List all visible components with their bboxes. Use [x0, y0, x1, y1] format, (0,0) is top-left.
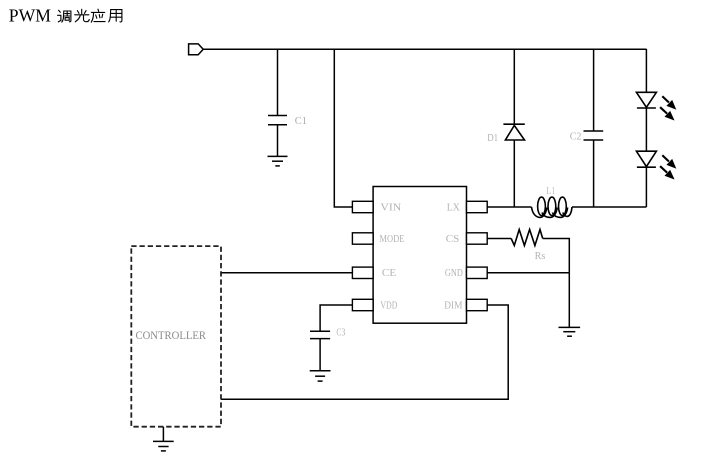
- title char 光: [75, 9, 90, 21]
- wire VDD to C3: [320, 305, 352, 331]
- IC U1 body: [373, 187, 466, 324]
- capacitor C2: [584, 131, 604, 140]
- svg-text:C2: C2: [570, 131, 582, 142]
- pin VIN: [352, 201, 373, 212]
- svg-text:D1: D1: [487, 133, 498, 144]
- svg-text:C1: C1: [295, 116, 307, 127]
- wire LED column top: [645, 49, 647, 92]
- title char 应: [91, 9, 105, 22]
- label DIM: [444, 300, 463, 311]
- wire LX to node: [487, 206, 531, 208]
- diode D1: [503, 124, 524, 140]
- wire LED column bottom: [645, 167, 647, 207]
- controller box: [131, 246, 221, 427]
- label MODE: [380, 234, 405, 245]
- svg-text:MODE: MODE: [380, 234, 405, 245]
- wire top rail: [203, 48, 646, 50]
- label Rs: [535, 251, 546, 262]
- svg-text:VIN: VIN: [380, 202, 401, 213]
- label C3: [336, 327, 345, 338]
- title char 调: [58, 10, 71, 22]
- svg-text:PWM: PWM: [9, 6, 52, 26]
- label CE: [382, 268, 396, 279]
- wire VIN branch: [334, 49, 352, 207]
- wire C2 lower: [593, 140, 595, 207]
- title char 用: [109, 10, 122, 22]
- wire node to ground: [568, 273, 570, 328]
- pin GND: [467, 267, 488, 278]
- wire CS to resistor: [487, 238, 511, 240]
- svg-text:DIM: DIM: [444, 300, 463, 311]
- pin CS: [467, 233, 488, 244]
- label LX: [447, 202, 460, 213]
- LED D2 arrows: [660, 96, 675, 119]
- wire C3 lower: [319, 339, 321, 371]
- pin CE: [352, 267, 373, 278]
- wire controller to ground: [162, 427, 164, 442]
- wire D1 lower: [513, 140, 515, 207]
- capacitor C3: [310, 331, 330, 338]
- input connector J1: [189, 44, 204, 55]
- wire C2 branch upper: [593, 49, 595, 131]
- svg-text:VDD: VDD: [380, 300, 397, 311]
- ground below C1: [268, 156, 288, 166]
- wire L1 to LED column: [572, 206, 646, 208]
- label C2: [570, 131, 582, 142]
- ground below Rs: [559, 327, 581, 336]
- pin LX: [467, 201, 488, 212]
- label VIN: [380, 202, 401, 213]
- svg-text:C3: C3: [336, 327, 345, 338]
- LED D3: [636, 151, 656, 167]
- svg-text:LX: LX: [447, 202, 460, 213]
- wire between LEDs: [645, 108, 647, 151]
- ground below C3: [310, 371, 331, 381]
- wire resistor to corner: [543, 239, 570, 273]
- svg-text:Rs: Rs: [535, 251, 546, 262]
- wire DIM loop: [221, 305, 508, 399]
- label L1: [546, 186, 555, 197]
- svg-text:CONTROLLER: CONTROLLER: [136, 330, 207, 342]
- svg-text:L1: L1: [546, 186, 555, 197]
- svg-text:GND: GND: [445, 268, 463, 279]
- pin VDD: [352, 299, 373, 310]
- capacitor C1: [268, 116, 287, 125]
- svg-text:CE: CE: [382, 268, 396, 279]
- svg-text:CS: CS: [446, 234, 460, 245]
- resistor Rs: [511, 230, 543, 246]
- label C1: [295, 116, 307, 127]
- wire CE to controller: [221, 272, 352, 274]
- label VDD: [380, 300, 397, 311]
- LED D3 arrows: [660, 155, 675, 178]
- inductor L1: [532, 197, 573, 217]
- pin MODE: [352, 233, 373, 244]
- title text PWM: [9, 6, 52, 26]
- LED D2: [636, 92, 656, 108]
- wire C1 lower: [277, 125, 279, 157]
- wire D1 branch upper: [513, 49, 515, 124]
- label CONTROLLER: [136, 330, 207, 342]
- label D1: [487, 133, 498, 144]
- wire C1 branch upper: [277, 49, 279, 116]
- label GND: [445, 268, 463, 279]
- pin DIM: [467, 299, 488, 310]
- ground below controller: [153, 441, 174, 451]
- label CS: [446, 234, 460, 245]
- wire GND pin to node: [487, 272, 569, 274]
